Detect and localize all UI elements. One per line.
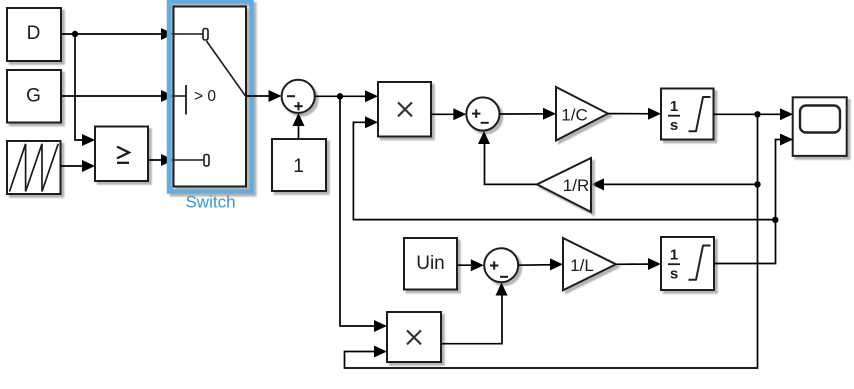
node junction at 1/R tap — [754, 181, 760, 187]
relational operator >= block — [95, 127, 148, 182]
svg-text:1: 1 — [670, 98, 678, 115]
wire 1/R output to Sum2 bottom — [478, 131, 537, 184]
switch in1 stub and contact — [174, 33, 203, 35]
svg-text:1/C: 1/C — [561, 105, 587, 124]
gain block 1/L — [563, 238, 616, 290]
wire Sum3 to gain 1/L — [518, 258, 563, 270]
svg-text:s: s — [670, 266, 678, 283]
wire Integrator2 output up to Scope in2 and branch — [714, 140, 793, 264]
gain block 1/C — [556, 87, 608, 141]
wire sawtooth to relational op in2 — [61, 160, 96, 172]
wire gain 1/L to Integrator2 — [616, 258, 661, 270]
switch in3 stub and contact — [174, 159, 204, 161]
sum block Sum1 (minus, plus) — [282, 80, 315, 113]
wire Sum1 to Product1 — [315, 90, 378, 102]
constant block Uin — [404, 238, 457, 290]
repeating sequence sawtooth source — [7, 141, 61, 194]
integrator block 1/s (limited) lower — [661, 237, 714, 290]
node junction at Sum1 output — [337, 93, 343, 99]
wire Switch to Sum1 — [246, 90, 282, 102]
svg-text:Switch: Switch — [185, 193, 235, 212]
sum block Sum2 (plus, minus) — [466, 97, 499, 130]
constant block D — [7, 8, 61, 61]
wire D branch down to relational op in1 — [75, 34, 95, 146]
wire G to Switch in2 — [61, 90, 174, 102]
svg-text:G: G — [26, 86, 41, 107]
svg-text:1/L: 1/L — [570, 256, 594, 275]
svg-text:1/R: 1/R — [563, 176, 589, 195]
switch block U:Switch (selected, blue highlight) — [169, 2, 252, 192]
svg-text:1: 1 — [293, 156, 304, 177]
svg-text:s: s — [670, 117, 678, 134]
svg-text:D: D — [27, 23, 41, 44]
wire Product1 to Sum2 — [431, 108, 466, 120]
product block Product2 — [387, 312, 441, 362]
wire vC feedback vertical and bottom run to Product2 in2 — [345, 114, 758, 368]
integrator block 1/s (limited) upper — [661, 89, 714, 140]
svg-text:Uin: Uin — [416, 253, 445, 274]
wire Sum2 to gain 1/C — [500, 108, 557, 120]
wire D to Switch in1 — [61, 28, 174, 40]
wire Product2 to Sum3 bottom — [441, 283, 508, 344]
svg-text:> 0: > 0 — [194, 88, 216, 105]
wire gain 1/C to Integrator1 — [608, 108, 661, 120]
wire Integrator1 to Scope in1 — [714, 108, 794, 120]
wire relational op to Switch in3 — [148, 154, 174, 166]
wire Uin to Sum3 — [457, 259, 484, 271]
scope block — [793, 97, 847, 156]
node junction at D output — [72, 31, 78, 37]
wire Sum1 branch down to Product2 in1 — [340, 96, 387, 332]
product block Product1 — [378, 82, 431, 137]
svg-text:1: 1 — [670, 247, 678, 264]
switch in2 stub and threshold mark — [174, 95, 187, 97]
gain block 1/R (left pointing) — [537, 158, 591, 212]
constant block 1 — [272, 139, 326, 191]
sum block Sum3 (plus, minus) — [484, 248, 518, 282]
node junction vC at integrator output — [754, 111, 760, 117]
node junction iL tap — [772, 217, 778, 223]
wire tap to gain 1/R input — [591, 178, 758, 190]
wire iL feedback into Product1 in2 — [353, 116, 775, 219]
wire into Scope in2 arrow — [780, 134, 793, 146]
wire constant 1 up to Sum1 — [293, 113, 305, 139]
constant block G — [7, 70, 61, 123]
switch arm diagonal — [207, 41, 246, 96]
